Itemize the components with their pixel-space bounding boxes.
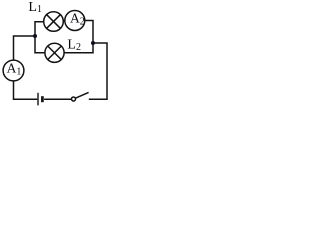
wire switch to right rail bbox=[89, 98, 108, 100]
ammeter A1 bbox=[3, 60, 24, 81]
node junction left bbox=[33, 34, 37, 38]
battery short plate bbox=[41, 96, 44, 102]
wire junction to right rail bbox=[93, 43, 107, 99]
switch lever bbox=[75, 92, 88, 98]
wire top-left branch riser bbox=[35, 22, 44, 36]
svg-text:A1: A1 bbox=[7, 60, 22, 77]
wire L1 to A2 bbox=[63, 20, 65, 22]
wire L2 to right junction bbox=[64, 43, 93, 53]
switch pivot bbox=[72, 97, 76, 101]
wire A2 to right junction bbox=[85, 21, 93, 44]
svg-text:L1: L1 bbox=[28, 0, 42, 15]
node junction right bbox=[91, 41, 95, 45]
lamp L2 bbox=[45, 43, 64, 62]
wire left top bbox=[14, 36, 36, 60]
battery long plate bbox=[37, 93, 39, 106]
wire A1 to bottom rail bbox=[14, 81, 38, 99]
ammeter A2 bbox=[65, 11, 85, 31]
svg-text:A2: A2 bbox=[70, 10, 85, 27]
svg-text:L2: L2 bbox=[67, 37, 81, 53]
lamp L1 bbox=[44, 12, 64, 32]
wire battery to switch bbox=[44, 98, 71, 100]
wire second branch down bbox=[35, 36, 45, 53]
